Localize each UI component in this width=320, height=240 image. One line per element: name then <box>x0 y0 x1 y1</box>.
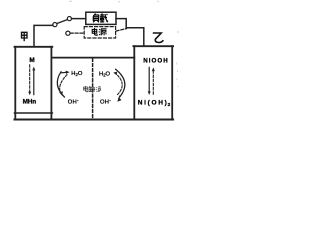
electrolyte left dashed arc arrow H2O -> OH- <box>59 75 67 96</box>
svg-text:H2O: H2O <box>71 71 83 77</box>
switch S blade <box>57 20 67 24</box>
switch S contact circle right <box>67 17 71 21</box>
electrode cell: right electrode box (乙, NiOOH/Ni(OH)2) <box>133 46 173 119</box>
svg-text:2: 2 <box>168 102 171 108</box>
arrow MHn->M (solid, discharge) in left electrode <box>32 67 35 95</box>
源 <box>99 28 100 31</box>
wire from electrode 甲 up to switch <box>34 25 53 46</box>
载 <box>100 14 104 16</box>
液 <box>95 86 98 89</box>
解 <box>88 86 91 87</box>
label 甲 (hand-drawn glyph) <box>22 32 28 41</box>
electrolyte label 电解液 (hand-drawn glyphs) <box>84 86 101 92</box>
electrolyte tank top rim <box>51 57 134 59</box>
switch S contact circle left <box>53 23 57 27</box>
label 乙 (hand-drawn glyph) <box>153 33 163 43</box>
electrode cell: left electrode box (甲, M/MHn) <box>15 47 53 119</box>
power source box text 电源 (hand-drawn glyphs) <box>92 28 106 35</box>
load box text 负载 (hand-drawn glyphs) <box>93 13 108 22</box>
faint scan noise at edges <box>69 1 178 87</box>
svg-text:MHn: MHn <box>23 98 37 105</box>
arrow Ni(OH)2->NiOOH (dashed, charge) in right electrode <box>152 67 155 94</box>
svg-text:NiOOH: NiOOH <box>143 57 168 64</box>
power source box 电源 (dashed) <box>84 27 115 38</box>
electrolyte left solid arc arrow OH- -> H2O <box>57 71 69 98</box>
svg-text:H2O: H2O <box>99 71 111 77</box>
electrolyte right solid arc arrow H2O -> OH- <box>116 69 125 102</box>
svg-text:Ni(OH): Ni(OH) <box>138 100 167 107</box>
open terminal circle of power-source branch <box>66 31 70 35</box>
electrolyte right dashed arc arrow OH- -> H2O <box>113 72 122 95</box>
arrow NiOOH->Ni(OH)2 (solid, discharge) in right electrode <box>148 67 151 95</box>
电 <box>92 29 97 33</box>
separator membrane (dashed divider) <box>92 59 94 119</box>
electrolyte tank bottom <box>15 119 174 121</box>
wire from switch to load box <box>72 18 86 20</box>
dashed wire from terminal to power source box <box>70 32 84 34</box>
svg-text:M: M <box>29 57 34 64</box>
load box 负载 <box>86 12 116 24</box>
wire from load box to node and down to electrode 乙 <box>116 19 144 47</box>
负 <box>93 14 95 16</box>
dashed wire from power source box to node <box>116 29 126 31</box>
电 <box>84 87 88 90</box>
arrow M->MHn (dashed, charge) in left electrode <box>28 65 31 95</box>
